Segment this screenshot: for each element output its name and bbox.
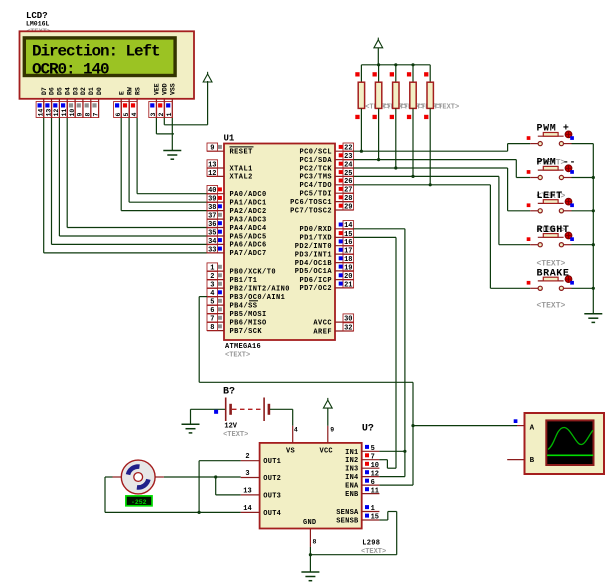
svg-text:3: 3 bbox=[245, 470, 249, 478]
U? pin 7 IN2 bbox=[362, 459, 380, 461]
svg-text:PC6/TOSC1: PC6/TOSC1 bbox=[290, 199, 332, 207]
svg-text:12: 12 bbox=[371, 470, 379, 478]
wire motor left to OUT1/OUT4 bbox=[105, 476, 113, 478]
svg-text:ATMEGA16: ATMEGA16 bbox=[225, 343, 261, 351]
wire PD0 to IN1 and IN4 bbox=[354, 228, 405, 230]
ground symbol at LCD bbox=[163, 150, 181, 152]
power rail for resistors bbox=[361, 64, 430, 66]
U1 pin 14 PD0/RXD bbox=[335, 228, 354, 230]
svg-text:PA7/ADC7: PA7/ADC7 bbox=[230, 250, 267, 258]
svg-text:2: 2 bbox=[158, 113, 165, 117]
svg-text:13: 13 bbox=[243, 487, 251, 495]
svg-text:IN3: IN3 bbox=[345, 466, 358, 474]
U1 pin 27 PC5/TDI bbox=[335, 192, 354, 194]
svg-text:OCR0: 140: OCR0: 140 bbox=[32, 60, 109, 78]
svg-text:ENB: ENB bbox=[345, 491, 359, 499]
U1 pin 18 PD4/OC1B bbox=[335, 262, 354, 264]
U1 pin 29 PC7/TOSC2 bbox=[335, 209, 354, 211]
svg-text:AVCC: AVCC bbox=[313, 319, 332, 327]
ground symbol at button rail bbox=[584, 313, 602, 315]
wire D4-PA4 bbox=[66, 118, 68, 228]
svg-text:SENSA: SENSA bbox=[336, 509, 359, 517]
svg-text:3: 3 bbox=[150, 113, 157, 117]
LCD body bbox=[20, 31, 195, 99]
U? pin 3 OUT2 bbox=[241, 477, 260, 479]
U1 pin 25 PC3/TMS bbox=[335, 175, 354, 177]
LCD screen bbox=[23, 36, 177, 77]
svg-text:8: 8 bbox=[210, 324, 214, 332]
oscilloscope screen bbox=[546, 420, 593, 465]
svg-text:11: 11 bbox=[61, 109, 68, 117]
svg-text:PD6/ICP: PD6/ICP bbox=[299, 277, 332, 285]
oscilloscope waveform channel A bbox=[548, 427, 593, 449]
svg-text:6: 6 bbox=[371, 479, 375, 487]
U? pin 4 VS bbox=[292, 426, 294, 443]
svg-text:D0: D0 bbox=[96, 87, 103, 95]
svg-text:12: 12 bbox=[208, 170, 216, 178]
svg-text:OUT2: OUT2 bbox=[263, 475, 281, 483]
svg-text:PD3/INT1: PD3/INT1 bbox=[295, 251, 332, 259]
U1 pin 5 PB4/SS bbox=[207, 304, 225, 306]
resistor R5 bbox=[429, 65, 431, 82]
U? pin 9 VCC bbox=[327, 426, 329, 443]
svg-text:XTAL1: XTAL1 bbox=[230, 165, 253, 173]
svg-text:PC4/TDO: PC4/TDO bbox=[299, 182, 332, 190]
wire PC1 to PWM- button bbox=[354, 159, 517, 161]
wire ground to battery bbox=[190, 409, 192, 424]
U1 pin 7 PB6/MISO bbox=[207, 321, 225, 323]
U? pin 6 ENA bbox=[362, 484, 380, 486]
svg-text:12V: 12V bbox=[224, 423, 237, 431]
wire battery to L298 VS bbox=[270, 408, 293, 410]
svg-text:PD5/OC1A: PD5/OC1A bbox=[295, 268, 333, 276]
U1 pin 23 PC1/SDA bbox=[335, 159, 354, 161]
U1 pin 19 PD5/OC1A bbox=[335, 270, 354, 272]
wire resistor R1 to PC0 bbox=[360, 108, 362, 151]
DC motor bbox=[121, 460, 155, 494]
wire RS-PA0 bbox=[136, 118, 138, 194]
U1 pin 35 PA5/ADC5 bbox=[207, 235, 225, 237]
power symbol at resistor rail bbox=[377, 48, 379, 65]
svg-text:PC1/SDA: PC1/SDA bbox=[299, 157, 332, 165]
svg-text:IN2: IN2 bbox=[345, 457, 358, 465]
svg-text:VSS: VSS bbox=[170, 83, 177, 95]
wire RW-PA1 bbox=[128, 118, 130, 202]
U1 pin 1 PB0/XCK/T0 bbox=[207, 270, 225, 272]
svg-text:AREF: AREF bbox=[313, 328, 332, 336]
svg-text:PB5/MOSI: PB5/MOSI bbox=[230, 311, 267, 319]
svg-text:7: 7 bbox=[371, 453, 375, 461]
svg-text:RESET: RESET bbox=[230, 149, 253, 157]
svg-text:15: 15 bbox=[371, 514, 379, 522]
U? pin 2 OUT1 bbox=[241, 460, 260, 462]
svg-text:LM016L: LM016L bbox=[26, 21, 50, 28]
svg-text:PD2/INT0: PD2/INT0 bbox=[295, 243, 332, 251]
svg-text:OUT4: OUT4 bbox=[263, 510, 281, 518]
U? pin 5 IN1 bbox=[362, 450, 380, 452]
svg-text:5: 5 bbox=[371, 445, 375, 453]
svg-text:PA2/ADC2: PA2/ADC2 bbox=[230, 208, 267, 216]
svg-text:B?: B? bbox=[223, 387, 235, 398]
wire PC4 to BRAKE button bbox=[354, 184, 491, 186]
U1 pin 37 PA3/ADC3 bbox=[207, 218, 225, 220]
U? pin 1 SENSA bbox=[362, 511, 380, 513]
svg-text:E: E bbox=[118, 91, 125, 95]
svg-text:D2: D2 bbox=[80, 87, 87, 95]
resistor R2 bbox=[378, 65, 380, 82]
svg-text:30: 30 bbox=[344, 316, 352, 324]
U1 pin 38 PA2/ADC2 bbox=[207, 210, 225, 212]
battery cell 2 bbox=[263, 398, 265, 422]
wire PC2 to LEFT button bbox=[354, 167, 508, 169]
svg-text:U1: U1 bbox=[224, 134, 235, 144]
svg-text:33: 33 bbox=[208, 246, 216, 254]
wire OC0 net to oscilloscope A bbox=[411, 424, 414, 427]
U1 pin 20 PD6/ICP bbox=[335, 279, 354, 281]
U? pin 10 IN3 bbox=[362, 467, 380, 469]
svg-text:21: 21 bbox=[344, 281, 352, 289]
svg-text:L298: L298 bbox=[362, 540, 380, 548]
wire resistor R5 to PC4 bbox=[429, 108, 431, 184]
oscilloscope bbox=[525, 413, 605, 474]
U1 pin 22 PC0/SCL bbox=[335, 150, 354, 152]
U1 pin 12 XTAL2 bbox=[207, 175, 225, 177]
U1 pin 16 PD2/INT0 bbox=[335, 245, 354, 247]
svg-text:10: 10 bbox=[69, 109, 76, 117]
wire motor right to OUT2/OUT3 bbox=[164, 476, 241, 478]
U? pin 8 GND bbox=[309, 529, 311, 547]
battery cell 1 bbox=[225, 398, 227, 422]
svg-text:PD4/OC1B: PD4/OC1B bbox=[295, 260, 333, 268]
battery dashed link bbox=[232, 408, 263, 410]
power symbol at L298 VCC bbox=[323, 400, 332, 408]
svg-text:<TEXT>: <TEXT> bbox=[225, 352, 250, 360]
svg-text:6: 6 bbox=[115, 113, 122, 117]
svg-text:4: 4 bbox=[294, 427, 298, 434]
svg-text:-252: -252 bbox=[131, 499, 147, 506]
svg-text:PD7/OC2: PD7/OC2 bbox=[299, 285, 332, 293]
U? pin 14 OUT4 bbox=[241, 511, 260, 513]
svg-text:8: 8 bbox=[85, 113, 92, 117]
svg-text:PA5/ADC5: PA5/ADC5 bbox=[230, 233, 267, 241]
U1 pin 34 PA6/ADC6 bbox=[207, 243, 225, 245]
U1 pin 30 AVCC bbox=[335, 321, 354, 323]
svg-text:14: 14 bbox=[38, 109, 45, 117]
U1 pin 4 PB3/OC0/AIN1 bbox=[207, 296, 225, 298]
U1 pin 28 PC6/TOSC1 bbox=[335, 201, 354, 203]
svg-text:14: 14 bbox=[243, 505, 251, 513]
svg-text:PD1/TXD: PD1/TXD bbox=[299, 235, 332, 243]
svg-text:PB7/SCK: PB7/SCK bbox=[230, 328, 263, 336]
U1 pin 6 PB5/MOSI bbox=[207, 313, 225, 315]
svg-text:11: 11 bbox=[371, 487, 379, 495]
U1 pin 33 PA7/ADC7 bbox=[207, 252, 225, 254]
svg-text:PC7/TOSC2: PC7/TOSC2 bbox=[290, 207, 332, 215]
svg-text:PA6/ADC6: PA6/ADC6 bbox=[230, 242, 267, 250]
svg-text:PB6/MISO: PB6/MISO bbox=[230, 319, 267, 327]
U? pin 12 IN4 bbox=[362, 476, 380, 478]
wire PC3 to RIGHT button bbox=[354, 175, 499, 177]
U1 pin 2 PB1/T1 bbox=[207, 279, 225, 281]
U1 pin 15 PD1/TXD bbox=[335, 236, 354, 238]
svg-text:1: 1 bbox=[166, 113, 173, 117]
svg-text:5: 5 bbox=[123, 113, 130, 117]
svg-text:A: A bbox=[530, 424, 535, 432]
svg-text:PA4/ADC4: PA4/ADC4 bbox=[230, 225, 267, 233]
U1 pin 32 AREF bbox=[335, 330, 354, 332]
svg-text:PB4/SS: PB4/SS bbox=[230, 302, 258, 310]
svg-text:PC0/SCL: PC0/SCL bbox=[299, 149, 332, 157]
resistor R4 bbox=[412, 65, 414, 82]
svg-text:U?: U? bbox=[362, 424, 374, 435]
wire L298 GND to ground bbox=[309, 547, 311, 572]
wire D5-PA5 bbox=[58, 118, 60, 236]
wire PD1 to IN2 bbox=[354, 236, 397, 238]
wire PB3/OC0 to ENA bbox=[199, 296, 207, 298]
U1 pin 9 RESET bbox=[207, 150, 225, 152]
svg-text:IN1: IN1 bbox=[345, 449, 358, 457]
svg-text:<TEXT>: <TEXT> bbox=[223, 431, 248, 439]
svg-text:PA3/ADC3: PA3/ADC3 bbox=[230, 216, 267, 224]
svg-text:LCD?: LCD? bbox=[26, 11, 48, 21]
svg-text:OUT3: OUT3 bbox=[263, 492, 281, 500]
svg-text:9: 9 bbox=[210, 145, 214, 153]
U1 pin 3 PB2/INT2/AIN0 bbox=[207, 287, 225, 289]
svg-text:RS: RS bbox=[134, 87, 141, 95]
svg-text:B: B bbox=[530, 457, 535, 465]
svg-text:PA0/ADC0: PA0/ADC0 bbox=[230, 191, 267, 199]
wire SENSB to ground net bbox=[379, 519, 387, 521]
svg-text:1: 1 bbox=[371, 505, 375, 513]
svg-text:ENA: ENA bbox=[345, 483, 359, 491]
svg-text:4: 4 bbox=[131, 113, 138, 117]
wire D6-PA6 bbox=[51, 118, 53, 244]
oscilloscope waveform channel B flat line bbox=[547, 454, 593, 456]
U? pin 11 ENB bbox=[362, 493, 380, 495]
svg-text:PC3/TMS: PC3/TMS bbox=[299, 174, 332, 182]
U1 pin 21 PD7/OC2 bbox=[335, 287, 354, 289]
svg-text:RW: RW bbox=[126, 87, 133, 95]
U1 pin 40 PA0/ADC0 bbox=[207, 193, 225, 195]
svg-text:SENSB: SENSB bbox=[336, 518, 359, 526]
svg-text:PC2/TCK: PC2/TCK bbox=[299, 165, 332, 173]
wire resistor R4 to PC3 bbox=[412, 108, 414, 176]
U? pin 15 SENSB bbox=[362, 519, 380, 521]
svg-text:PD0/RXD: PD0/RXD bbox=[299, 226, 332, 234]
wire PC0 to PWM+ button bbox=[354, 150, 508, 152]
svg-text:32: 32 bbox=[344, 324, 352, 332]
svg-text:9: 9 bbox=[330, 427, 334, 434]
svg-text:GND: GND bbox=[303, 519, 316, 527]
U1 pin 24 PC2/TCK bbox=[335, 167, 354, 169]
wire resistor R3 to PC2 bbox=[395, 108, 397, 168]
svg-text:Direction: Left: Direction: Left bbox=[32, 42, 160, 60]
U? pin 13 OUT3 bbox=[241, 494, 260, 496]
svg-text:10: 10 bbox=[371, 462, 379, 470]
wire resistor R2 to PC1 bbox=[378, 108, 380, 159]
motor terminals bbox=[113, 476, 122, 478]
U1 pin 13 XTAL1 bbox=[207, 167, 225, 169]
svg-text:2: 2 bbox=[245, 453, 249, 461]
resistor R3 bbox=[395, 65, 397, 82]
svg-text:PB0/XCK/T0: PB0/XCK/T0 bbox=[230, 268, 277, 276]
svg-text:PA1/ADC1: PA1/ADC1 bbox=[230, 200, 267, 208]
wire E-PA2 bbox=[120, 118, 122, 211]
U1 pin 26 PC4/TDO bbox=[335, 184, 354, 186]
U1 pin 36 PA4/ADC4 bbox=[207, 227, 225, 229]
svg-text:<TEXT>: <TEXT> bbox=[434, 104, 459, 112]
svg-text:PB1/T1: PB1/T1 bbox=[230, 277, 258, 285]
wire VDD to power bbox=[163, 118, 165, 125]
U1 pin 39 PA1/ADC1 bbox=[207, 201, 225, 203]
svg-text:D6: D6 bbox=[49, 87, 56, 95]
svg-text:VDD: VDD bbox=[162, 83, 169, 95]
svg-text:<TEXT>: <TEXT> bbox=[537, 302, 566, 311]
svg-text:D4: D4 bbox=[64, 87, 71, 95]
svg-text:8: 8 bbox=[313, 539, 317, 546]
svg-text:7: 7 bbox=[92, 113, 99, 117]
svg-text:PB2/INT2/AIN0: PB2/INT2/AIN0 bbox=[230, 285, 290, 293]
svg-text:29: 29 bbox=[344, 203, 352, 211]
wire buttons right rail to ground bbox=[572, 143, 594, 145]
svg-text:D7: D7 bbox=[41, 87, 48, 95]
svg-text:9: 9 bbox=[77, 113, 84, 117]
svg-text:13: 13 bbox=[45, 109, 52, 117]
svg-text:PC5/TDI: PC5/TDI bbox=[299, 191, 332, 199]
svg-text:D3: D3 bbox=[72, 87, 79, 95]
svg-text:<TEXT>: <TEXT> bbox=[537, 260, 566, 269]
motor rpm display bbox=[126, 496, 152, 506]
ground symbol at L298 bbox=[301, 571, 319, 573]
svg-text:D5: D5 bbox=[57, 87, 64, 95]
wire VSS to ground bbox=[171, 118, 173, 151]
ground symbol at battery bbox=[182, 423, 200, 425]
svg-text:IN4: IN4 bbox=[345, 474, 358, 482]
svg-text:12: 12 bbox=[53, 109, 60, 117]
power symbol VDD bbox=[203, 74, 212, 82]
wire VEE to ground bbox=[155, 118, 157, 134]
svg-text:VS: VS bbox=[286, 448, 295, 456]
U1 pin 17 PD3/INT1 bbox=[335, 253, 354, 255]
wire D7-PA7 bbox=[43, 118, 45, 253]
svg-text:XTAL2: XTAL2 bbox=[230, 174, 253, 182]
svg-text:VEE: VEE bbox=[154, 83, 161, 95]
resistor R1 bbox=[360, 65, 362, 82]
svg-text:OUT1: OUT1 bbox=[263, 458, 281, 466]
svg-text:D1: D1 bbox=[88, 87, 95, 95]
svg-text:VCC: VCC bbox=[320, 448, 333, 456]
U1 pin 8 PB7/SCK bbox=[207, 330, 225, 332]
